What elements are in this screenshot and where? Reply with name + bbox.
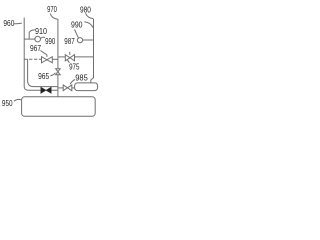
svg-text:987: 987 [64,36,75,46]
svg-text:967: 967 [30,43,41,53]
svg-text:950: 950 [2,98,13,108]
svg-text:965: 965 [38,71,49,81]
svg-text:960: 960 [3,18,14,28]
svg-text:980: 980 [80,4,91,14]
svg-text:985: 985 [75,73,88,83]
svg-text:990: 990 [45,36,55,46]
svg-text:990: 990 [71,20,83,30]
svg-text:910: 910 [35,26,47,36]
svg-text:970: 970 [47,4,57,14]
svg-text:975: 975 [69,61,80,71]
